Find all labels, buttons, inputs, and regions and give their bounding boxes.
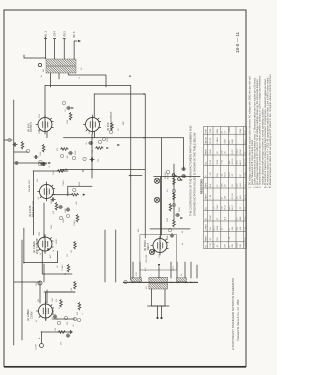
svg-text:1 MEG: 1 MEG [229,127,231,134]
svg-text:2200: 2200 [240,128,242,133]
svg-text:.001: .001 [229,160,231,165]
svg-text:.001: .001 [240,226,242,231]
node 19 [109,130,112,133]
capacitor C15 [175,213,179,216]
wire plate bottom [94,86,145,281]
svg-text:RC-20: RC-20 [232,158,234,165]
photofact credit [231,277,240,350]
tube V2 12BA6 IF amp [32,235,53,255]
page number [235,31,240,53]
capacitor C9 [181,174,185,177]
resistor R5 [67,264,70,272]
svg-text:USE: USE [206,129,208,134]
phono labels [165,171,170,179]
svg-text:250: 250 [225,243,227,247]
arrow b minus [117,144,120,146]
svg-text:22K: 22K [240,243,242,247]
svg-text:1 W: 1 W [245,227,247,231]
svg-text:C7: C7 [214,206,216,210]
svg-text:BL: BL [45,33,48,37]
svg-text:R-12: R-12 [245,194,247,199]
svg-text:2200: 2200 [245,171,247,176]
value labels V1 area [36,297,79,339]
choke L3 [131,278,142,282]
svg-text:.05: .05 [57,266,59,269]
phono terminal P1 [172,174,175,177]
svg-text:150: 150 [71,250,73,253]
svg-text:(1) 12BE6: (1) 12BE6 [26,309,30,321]
tube V4 6V6 output 1 [27,115,54,134]
speaker labels [45,31,77,38]
svg-text:2ND I.F. AMP: 2ND I.F. AMP [35,238,39,254]
value label ant [61,342,63,345]
svg-text:.0001: .0001 [63,219,65,224]
svg-text:47: 47 [59,307,61,309]
svg-text:470K: 470K [240,149,242,154]
value labels power area [136,235,183,289]
value labels V3 area [37,166,76,227]
svg-text:OUTPUT: OUTPUT [30,122,33,132]
svg-text:1500: 1500 [107,138,109,142]
resistor R19 [21,141,24,149]
capacitor C8 [66,106,74,109]
wire V4 grid lead [46,132,48,138]
svg-text:.01: .01 [49,166,51,169]
arrow bleeder [180,217,183,219]
IF transformer T1 wires [24,228,58,263]
svg-text:2200: 2200 [225,138,227,143]
svg-text:OSC: OSC [53,308,55,313]
svg-text:FM-AM DET: FM-AM DET [28,179,31,192]
svg-text:RESISTORS: RESISTORS [200,179,204,194]
svg-text:100: 100 [71,288,73,291]
svg-text:45V: 45V [37,178,39,182]
wire top feed [24,55,45,58]
wire V5 grid lead [94,132,96,138]
resistor R7 [57,170,65,173]
tube V5 6V6 output 2 [84,111,114,134]
svg-text:VOL: VOL [68,191,70,195]
wire speaker leads [44,37,81,59]
wire detector lead [33,170,68,172]
node 24 [26,149,29,152]
svg-text:.001: .001 [240,182,242,187]
svg-text:TO AVC: TO AVC [61,264,64,271]
svg-text:22K: 22K [232,243,234,247]
svg-text:1 MEG: 1 MEG [63,180,65,186]
svg-text:98V: 98V [38,298,40,302]
svg-text:A1-7: A1-7 [231,204,234,209]
svg-text:.02: .02 [65,110,67,113]
resistor R9 [55,202,58,210]
capacitor C1 [66,333,69,337]
resistor R11 [42,144,45,152]
wire V5 plate lead [93,94,95,118]
capacitor C14 [42,162,46,165]
svg-text:100K: 100K [51,199,53,204]
phono arrows [175,175,183,181]
svg-text:RC-20: RC-20 [232,192,234,199]
svg-text:470K: 470K [210,128,212,133]
node 20 [172,203,175,206]
tube V6 35W4 rectifier [143,236,168,255]
node 17 [60,154,63,157]
node 15 [98,140,101,143]
capacitor C7 [90,158,94,161]
wire AVC bus top [13,100,15,345]
svg-text:600: 600 [43,69,45,72]
svg-text:470: 470 [57,148,59,151]
node 14 [91,169,93,171]
svg-text:150: 150 [217,172,219,176]
svg-text:4: 4 [54,31,57,33]
svg-text:40MF: 40MF [167,235,169,240]
wire rectifier plate feed [150,177,190,238]
node 7 [57,321,60,324]
svg-text:C7: C7 [245,130,247,134]
switch label [146,254,148,263]
wire transformer taps [51,73,107,87]
node 27 [166,170,169,173]
svg-text:47K: 47K [53,210,55,214]
svg-text:47: 47 [245,207,247,210]
resistor R20 [173,219,176,227]
svg-text:6.3: 6.3 [167,190,169,193]
wire V2 cathode [42,251,72,274]
svg-text:5V: 5V [181,273,183,276]
svg-text:8MF: 8MF [123,121,125,125]
wire feedback [105,230,116,282]
svg-text:100V: 100V [52,297,54,302]
svg-text:S-4: S-4 [210,183,212,187]
resistor R10 [76,214,79,222]
wire V2 grid coupling [43,203,45,238]
svg-text:CONV.: CONV. [30,311,34,319]
wire coupling [91,134,93,178]
capacitor C6 [34,155,38,158]
tube V3 12AT6 det avc af [28,179,55,217]
wire tone branch [4,140,28,152]
svg-text:250V: 250V [39,129,41,134]
output transformer T2 [46,59,76,73]
node 26 [168,228,171,231]
svg-text:C7: C7 [229,227,231,231]
svg-text:1V: 1V [53,249,55,252]
svg-text:A PHOTOFACT STANDARD NOTATION: A PHOTOFACT STANDARD NOTATION SCHEMATIC [231,277,235,350]
ground [69,330,72,333]
svg-text:.005: .005 [76,202,78,206]
svg-text:.02: .02 [217,150,219,154]
svg-text:0V: 0V [40,252,42,255]
svg-text:.25: .25 [222,227,224,231]
svg-text:.05: .05 [225,150,227,154]
svg-text:10K: 10K [92,149,94,153]
svg-text:B+: B+ [41,75,43,77]
svg-text:INPUT: INPUT [168,172,170,179]
phono lamp I1 [154,197,159,202]
svg-text:.05: .05 [217,244,219,248]
svg-text:.05: .05 [86,143,88,146]
svg-text:PART: PART [205,235,208,241]
table header [200,179,204,194]
svg-text:6: 6 [73,31,76,33]
svg-text:V: V [206,175,208,177]
svg-text:68K: 68K [240,216,242,220]
wire V1 filament stubs [40,282,47,303]
svg-text:C7: C7 [225,130,227,134]
svg-text:R-12: R-12 [232,149,234,154]
oscillator coil L2 [38,281,42,285]
svg-text:THE COORDINATION OF THE MA: THE COORDINATION OF THE MANUFACTURERS PA… [189,126,193,216]
volume control R8 [71,188,86,196]
svg-text:.005: .005 [67,156,69,160]
wire osc section [53,318,58,320]
node 18 [62,101,65,104]
power labels [144,266,175,271]
svg-text:.02: .02 [232,173,234,177]
svg-text:SR: SR [146,286,148,289]
svg-text:C7: C7 [217,184,219,188]
resistor R14 [69,112,72,120]
svg-text:RC-20: RC-20 [245,158,247,165]
svg-text:10%: 10% [237,160,239,164]
value labels misc texture [41,67,187,325]
svg-text:.0002: .0002 [46,317,48,322]
capacitor C11 [170,233,173,237]
wire divider bus [160,138,162,235]
svg-text:No.: No. [206,206,208,210]
svg-text:.05: .05 [222,173,224,177]
capacitor C2 [53,314,56,318]
svg-text:S-4: S-4 [225,216,227,220]
capacitor C18 [58,205,62,208]
svg-text:100K: 100K [232,138,234,143]
wire phono row [173,164,175,220]
resistor R16 [169,203,172,211]
capacitor C4 [51,198,55,201]
svg-text:A1-7: A1-7 [213,225,216,230]
node 16 [83,157,86,160]
wire osc feed [14,264,44,282]
svg-text:39K: 39K [77,311,79,315]
wire AVC row [14,162,47,164]
wire osc junction [56,318,75,320]
svg-text:.25: .25 [240,206,242,210]
choke L4 [176,278,186,282]
svg-text:RD: RD [63,33,66,37]
svg-text:1 MEG: 1 MEG [217,137,219,144]
power box outline [140,235,177,270]
value labels output area [39,69,94,156]
svg-text:470K: 470K [210,215,212,220]
resistor R12 [61,148,69,151]
svg-text:150: 150 [210,226,212,230]
svg-text:150: 150 [245,216,247,220]
resistor R13 [96,147,110,150]
speaker terminal [38,63,41,66]
capacitor C10 [181,167,185,170]
wire V1 plate [46,292,76,303]
table parts list [204,127,247,249]
wire antenna lead [42,332,71,344]
svg-text:.25: .25 [245,183,247,187]
notes list [248,74,272,188]
svg-text:©Howard W. Sams & Co., Inc. 19: ©Howard W. Sams & Co., Inc. 1950 [236,299,240,341]
svg-text:150: 150 [222,205,224,209]
node 12 [66,214,69,217]
svg-text:W: W [206,218,208,220]
svg-text:-6V: -6V [52,316,54,320]
svg-text:R-12: R-12 [225,171,227,176]
svg-text:455KC: 455KC [56,238,58,244]
table cell values [205,127,247,248]
svg-text:22K: 22K [222,183,224,187]
svg-text:250V: 250V [51,224,53,229]
svg-text:470K: 470K [217,225,219,230]
resistor R6 [74,281,77,289]
wire interstage [144,94,146,238]
svg-text:.05: .05 [73,325,75,328]
svg-text:100K: 100K [210,149,212,154]
svg-text:OSC: OSC [36,281,38,286]
svg-text:40: 40 [182,243,184,245]
svg-text:R-12: R-12 [245,138,247,143]
svg-text:A1-7: A1-7 [239,159,242,164]
svg-text:No.: No. [206,161,208,165]
svg-text:CM-1: CM-1 [237,148,239,154]
wire grid bus [21,240,23,340]
svg-text:STANDARD NOTATION VALUES IS: STANDARD NOTATION VALUES IS SHOWN IN THE… [193,132,197,216]
wire det out [52,186,92,196]
svg-text:12K: 12K [67,321,69,325]
svg-text:BK: BK [73,34,76,38]
svg-text:22K: 22K [55,327,57,331]
svg-text:0V: 0V [36,319,38,322]
wire screen [44,291,75,293]
svg-text:47: 47 [229,245,231,248]
svg-text:No.: No. [206,244,208,248]
capacitor C17 [88,141,92,144]
resistor R1 [58,331,66,334]
svg-text:30: 30 [182,231,184,233]
svg-text:R-12: R-12 [229,171,231,176]
svg-text:12V: 12V [89,130,91,134]
node 22 [124,280,127,283]
svg-text:47: 47 [222,196,224,199]
node 30 [59,216,62,219]
svg-text:-1V: -1V [38,196,40,200]
capacitor C3 [40,162,44,165]
svg-text:250K: 250K [53,170,55,175]
wire V4 plate lead [44,86,46,118]
node 13 [65,169,67,171]
svg-text:.001: .001 [240,194,242,199]
svg-text:R-12: R-12 [214,242,216,247]
svg-text:1 W: 1 W [222,150,224,154]
arrow AVC [47,248,50,250]
svg-text:470K: 470K [75,150,77,155]
wire plate top [45,85,131,87]
capacitor C5 electrolytic [66,207,69,211]
wire power stubs [133,262,197,278]
svg-text:PART: PART [205,193,208,199]
svg-text:470: 470 [56,299,58,302]
svg-text:500K: 500K [79,181,81,186]
resistor R4 [74,241,77,249]
svg-text:2200: 2200 [217,159,219,164]
svg-text:.25: .25 [232,183,234,187]
B plus arrow [158,264,320,321]
svg-text:150: 150 [217,237,219,241]
border frame [4,10,246,367]
power bus heavy [123,281,198,283]
svg-text:MFD: MFD [206,182,208,187]
svg-text:.1: .1 [82,314,84,316]
svg-text:250: 250 [237,226,239,230]
svg-text:8. Measured values are take: 8. Measured values are taken with set op… [269,74,272,188]
svg-text:.001: .001 [232,226,234,231]
svg-text:A1-7: A1-7 [228,204,231,209]
value labels V2 area [36,231,73,291]
svg-text:220K: 220K [40,151,42,156]
svg-text:RECT.: RECT. [146,242,150,250]
node 21 [172,189,175,192]
node 10 [73,317,76,320]
svg-text:1200: 1200 [167,218,169,222]
svg-text:250: 250 [237,183,239,187]
svg-text:LOOP: LOOP [36,343,38,350]
AC plug [148,306,170,319]
resistor R17 [173,192,176,200]
svg-text:R-12: R-12 [225,204,227,209]
svg-text:47: 47 [222,130,224,133]
svg-text:PART: PART [205,148,208,154]
svg-text:10MF: 10MF [65,208,67,213]
wire IF to det coupling [33,171,35,235]
wire phase bus [60,168,145,170]
svg-text:220: 220 [98,159,100,162]
svg-text:100K: 100K [237,242,239,247]
svg-text:100V: 100V [39,231,41,236]
svg-text:6800: 6800 [217,128,219,133]
svg-text:117V: 117V [159,253,161,258]
svg-text:C7: C7 [237,217,239,221]
svg-text:VALUE: VALUE [205,137,208,144]
svg-text:6.3V: 6.3V [136,272,138,276]
svg-text:100K: 100K [245,242,247,247]
svg-text:.02: .02 [118,129,120,132]
svg-text:T2: T2 [79,77,81,79]
tube V1 12BE6 converter [26,302,54,322]
svg-text:FUSE: FUSE [179,206,181,212]
pilot lamp [149,249,154,254]
phono lamp I2 [154,178,159,183]
svg-text:CM-1: CM-1 [217,204,219,210]
svg-text:270: 270 [67,254,69,257]
capacitor C13 [14,161,18,164]
power transformer T3 primary [149,277,168,282]
node 28 [72,156,75,159]
svg-text:A.C.: A.C. [144,267,147,271]
resistor R18 [173,177,176,185]
svg-text:47: 47 [245,151,247,154]
svg-text:PH: PH [185,175,187,178]
resistor R2 [60,299,63,307]
svg-text:GR: GR [54,33,57,37]
svg-text:AVC: AVC [49,254,52,258]
svg-text:SEL: SEL [138,229,140,232]
svg-text:.25: .25 [210,237,212,241]
